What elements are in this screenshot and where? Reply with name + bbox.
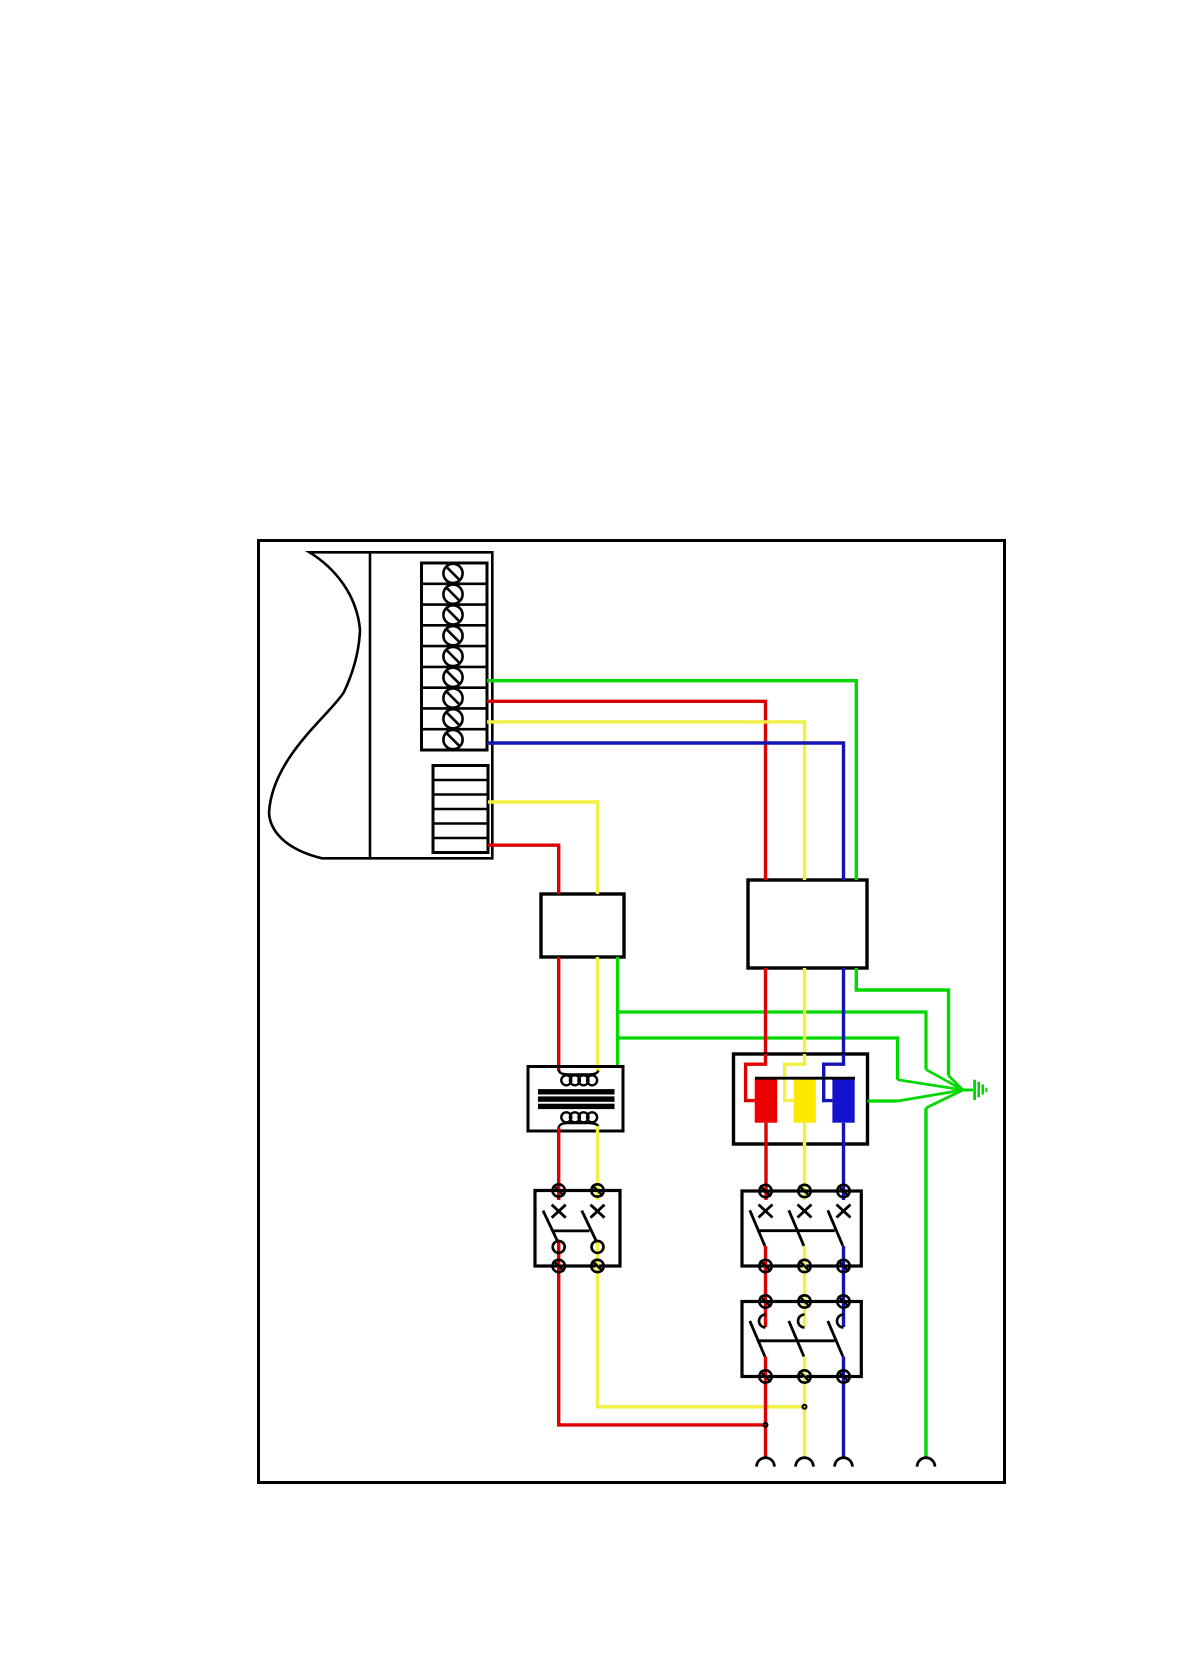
- screw terminal 4: [443, 626, 462, 645]
- red lamp wire jog: [746, 1054, 766, 1101]
- KM1 pole 1 bottom terminal: [759, 1370, 771, 1382]
- junction dot yellow: [802, 1404, 808, 1410]
- Q1 pole 1 blade: [543, 1211, 557, 1241]
- Q2 pole 1 bottom terminal: [759, 1260, 771, 1272]
- wire green K2 to earth: [856, 968, 963, 1090]
- KM1 pole 3 contact arc: [837, 1315, 843, 1328]
- KM1 pole 1 blade: [750, 1321, 765, 1357]
- breaker Q1 (2-pole): [535, 1191, 620, 1267]
- Q2 pole 2 contact X: [798, 1205, 812, 1218]
- wire yellow TB1 to K2: [487, 722, 805, 880]
- wire red lamp box to breaker Q2: [764, 1123, 767, 1200]
- wire red TB2 to K1: [488, 845, 559, 894]
- wire blue KM1 to cable exit: [842, 1357, 845, 1458]
- wire green TB1 to K2: [487, 681, 856, 880]
- junction dot red: [763, 1422, 769, 1428]
- Q1 pole 2 blade: [582, 1211, 596, 1241]
- controller module outline (torn-edge device): [269, 552, 492, 858]
- contactor KM1 (3-pole): [742, 1302, 861, 1377]
- screw terminal 3: [443, 605, 462, 624]
- wire yellow TB2 to K1: [488, 802, 598, 894]
- wire red K1 to transformer: [557, 957, 560, 1071]
- wire yellow K1 to transformer: [596, 957, 599, 1072]
- screw terminal 6: [443, 668, 462, 687]
- wire yellow transformer to breaker Q1: [596, 1126, 599, 1200]
- wire blue Q2 to contactor KM1: [842, 1246, 845, 1327]
- Q2 pole 2 top terminal: [798, 1185, 810, 1197]
- Q1 pole 2 bottom terminal: [591, 1260, 603, 1272]
- KM1 pole 2 contact arc: [798, 1315, 805, 1328]
- wire green earth to cable exit: [926, 1090, 963, 1458]
- KM1 pole 1 contact arc: [759, 1315, 766, 1328]
- Q2 pole 1 contact X: [759, 1205, 773, 1218]
- cable entry arc L2: [796, 1458, 814, 1467]
- Q1 pole 2 contact X: [591, 1205, 605, 1218]
- cable entry arc L1: [757, 1458, 775, 1467]
- frame border: [259, 541, 1005, 1483]
- wire yellow K2 to lamp box: [803, 968, 806, 1054]
- screw terminal 9: [443, 730, 462, 749]
- Q1 pole 2 top terminal: [591, 1184, 603, 1196]
- KM1 pole 2 blade: [789, 1321, 804, 1357]
- Q2 crossbar link: [759, 1229, 835, 1232]
- screw terminal 1: [443, 564, 462, 583]
- cable entry arc L3: [835, 1458, 853, 1467]
- blue lamp wire jog: [824, 1054, 844, 1101]
- KM1 pole 3 blade: [828, 1321, 843, 1357]
- yellow lamp element: [794, 1079, 816, 1123]
- Q2 pole 1 top terminal: [759, 1185, 771, 1197]
- Q2 pole 2 bottom terminal: [798, 1260, 810, 1272]
- Q2 pole 3 bottom terminal: [837, 1260, 849, 1272]
- wire green earth branch 1: [618, 1012, 964, 1090]
- wire green K1 to transformer: [616, 957, 619, 1067]
- lower connector strip TB2 (6 cells): [433, 766, 488, 853]
- wire red K2 to lamp box: [764, 968, 767, 1054]
- KM1 pole 1 top terminal: [759, 1295, 771, 1307]
- Q1 pole 1 bottom terminal: [553, 1260, 565, 1272]
- breaker Q2 (3-pole): [742, 1191, 861, 1266]
- wire blue TB1 to K2: [487, 743, 844, 880]
- KM1 pole 3 top terminal: [837, 1295, 849, 1307]
- KM1 pole 3 bottom terminal: [837, 1370, 849, 1382]
- lamp box with indicator fuses: [734, 1054, 868, 1144]
- red lamp element: [755, 1079, 778, 1123]
- KM1 pole 2 top terminal: [798, 1295, 810, 1307]
- Q1 pole 1 moving contact circle: [553, 1241, 565, 1253]
- cable entry arc PE: [917, 1458, 935, 1467]
- wire yellow Q1 output to junction: [598, 1241, 805, 1407]
- Q2 pole 3 contact X: [837, 1205, 851, 1218]
- transformer T1: [528, 1067, 623, 1132]
- controller inner partition line: [369, 552, 372, 858]
- screw terminal 2: [443, 585, 462, 604]
- wire red transformer to breaker Q1: [557, 1127, 560, 1200]
- Q1 pole 1 top terminal: [553, 1184, 565, 1196]
- wire red Q1 output to junction: [559, 1241, 766, 1425]
- terminal strip TB1 (9 screw terminals): [422, 563, 488, 750]
- wire red Q2 to contactor KM1: [764, 1246, 767, 1327]
- lamp box bus line: [755, 1077, 855, 1080]
- screw terminal 7: [443, 689, 462, 708]
- blue lamp element: [832, 1079, 854, 1123]
- wire red TB1 to K2: [487, 701, 766, 880]
- Q2 pole 1 blade: [750, 1210, 765, 1246]
- Q2 pole 3 top terminal: [837, 1185, 849, 1197]
- wire blue K2 to lamp box: [842, 968, 845, 1054]
- KM1 crossbar link: [759, 1339, 835, 1342]
- screw terminal 8: [443, 709, 462, 728]
- wire yellow Q2 to contactor KM1: [803, 1246, 806, 1327]
- Q1 pole 2 moving contact circle: [592, 1241, 604, 1253]
- wire red KM1 to cable exit: [764, 1357, 767, 1458]
- Q2 pole 2 blade: [789, 1210, 804, 1246]
- relay box K2: [748, 880, 867, 968]
- screw terminal 5: [443, 647, 462, 666]
- KM1 pole 2 bottom terminal: [798, 1370, 810, 1382]
- wire yellow lamp box to breaker Q2: [803, 1123, 806, 1200]
- wire green lamp box to earth: [868, 1090, 964, 1101]
- wire yellow KM1 to cable exit: [803, 1357, 806, 1458]
- earth ground symbol: [961, 1080, 987, 1100]
- relay box K1: [541, 894, 624, 957]
- Q2 pole 3 blade: [828, 1210, 843, 1246]
- Q1 pole 1 contact X: [552, 1205, 566, 1218]
- wire green earth branch 2: [618, 1038, 964, 1090]
- wire blue lamp box to breaker Q2: [842, 1123, 845, 1200]
- yellow lamp wire jog: [785, 1054, 805, 1101]
- Q1 crossbar link: [552, 1230, 590, 1233]
